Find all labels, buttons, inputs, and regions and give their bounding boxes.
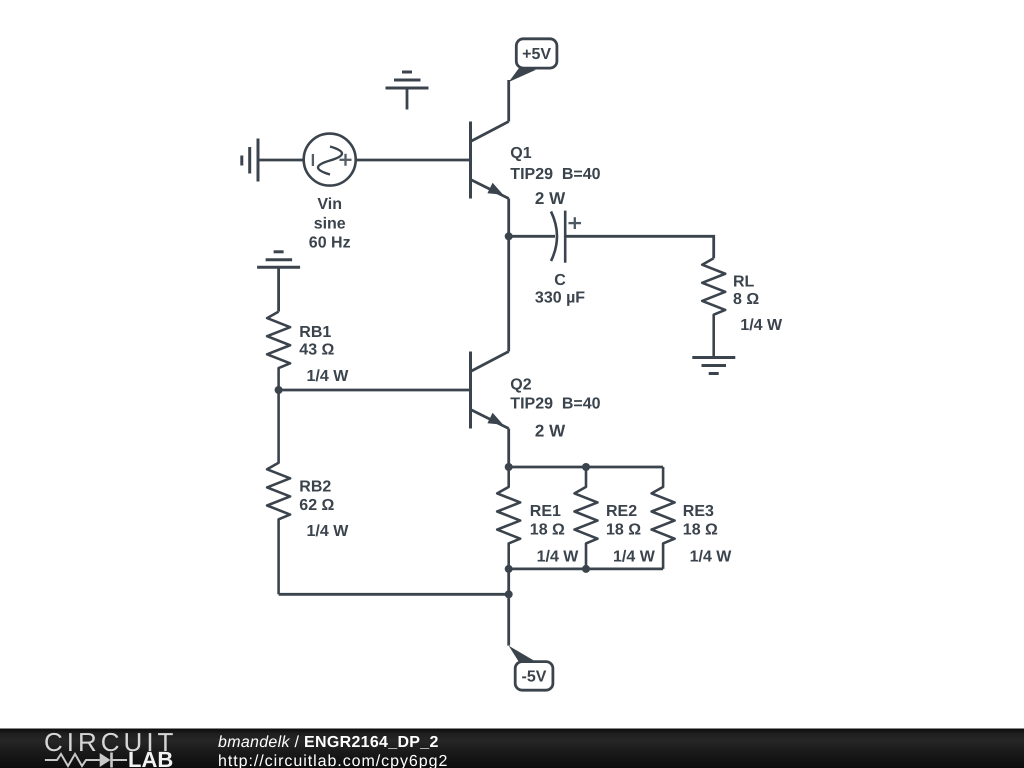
wire input ground to Vin <box>258 159 304 162</box>
wire output node to capacitor <box>509 235 555 238</box>
svg-text:Vin: Vin <box>317 196 342 213</box>
resistor RL <box>702 258 725 357</box>
wire Q2 emitter to RE rail <box>507 429 510 468</box>
svg-text:1/4 W: 1/4 W <box>740 317 783 334</box>
svg-text:RB2: RB2 <box>299 479 331 496</box>
node dot RE1 top <box>505 463 513 471</box>
wire +5V flag to Q1 collector <box>507 80 510 122</box>
svg-text:1/4 W: 1/4 W <box>307 523 350 540</box>
label RL 8 Ω 1/4 W <box>733 274 783 335</box>
wire RE bottom rail <box>509 568 663 571</box>
CircuitLab logo squiggle (resistor + diode) <box>45 753 127 768</box>
wire Vin to Q1 base <box>356 159 469 162</box>
node dot RE1 bottom <box>505 565 513 573</box>
node junction dot (output node) <box>505 232 513 240</box>
svg-text:RB1: RB1 <box>299 324 331 341</box>
svg-text:8 Ω: 8 Ω <box>733 291 759 308</box>
svg-text:RE3: RE3 <box>683 503 714 520</box>
label Q1 TIP29 B=40 2 W <box>510 145 600 208</box>
wire output node to Q2 collector <box>507 236 510 351</box>
svg-text:RL: RL <box>733 274 755 291</box>
wire RB2 to bottom node <box>279 593 509 596</box>
ground (above RB1) <box>257 252 300 267</box>
svg-text:Q2: Q2 <box>510 377 531 394</box>
node dot (Q2 base junction) <box>275 386 283 394</box>
transistor Q1 <box>471 122 509 199</box>
ground (floating, top middle) <box>386 72 429 110</box>
svg-text:60 Hz: 60 Hz <box>309 235 351 252</box>
svg-text:2 W: 2 W <box>535 422 566 441</box>
svg-text:1/4 W: 1/4 W <box>307 368 350 385</box>
capacitor C (polarized) <box>551 211 581 263</box>
power flag +5V <box>509 39 557 82</box>
svg-text:TIP29 B=40: TIP29 B=40 <box>510 166 600 183</box>
node dot RE2 bottom <box>582 565 590 573</box>
footer bar <box>0 729 1024 768</box>
transistor Q2 <box>471 352 509 429</box>
svg-text:62 Ω: 62 Ω <box>299 497 334 514</box>
svg-text:Q1: Q1 <box>510 145 531 162</box>
svg-text:-5V: -5V <box>522 669 547 686</box>
label Vin sine 60 Hz <box>309 196 351 252</box>
node dot RE2 top <box>582 463 590 471</box>
label C 330 µF <box>535 272 585 307</box>
label RE3 18 Ω 1/4 W <box>683 503 732 566</box>
resistor RE2 <box>575 467 598 569</box>
svg-text:TIP29 B=40: TIP29 B=40 <box>510 396 600 413</box>
svg-text:sine: sine <box>314 216 346 233</box>
voltage source Vin <box>304 134 356 186</box>
svg-text:18 Ω: 18 Ω <box>606 522 641 539</box>
label RB1 43 Ω 1/4 W <box>299 324 349 385</box>
svg-text:RE2: RE2 <box>606 503 637 520</box>
svg-text:1/4 W: 1/4 W <box>690 549 733 566</box>
resistor RE1 <box>497 467 520 569</box>
svg-text:18 Ω: 18 Ω <box>530 522 565 539</box>
svg-text:http://circuitlab.com/cpy6pg2: http://circuitlab.com/cpy6pg2 <box>218 753 448 768</box>
svg-text:18 Ω: 18 Ω <box>683 522 718 539</box>
svg-text:1/4 W: 1/4 W <box>537 549 580 566</box>
wire ground to RB1 <box>277 267 280 311</box>
svg-text:1/4 W: 1/4 W <box>613 549 656 566</box>
label RE1 18 Ω 1/4 W <box>530 503 579 566</box>
label RB2 62 Ω 1/4 W <box>299 479 349 541</box>
svg-text:330 µF: 330 µF <box>535 290 585 307</box>
wire RE rail to bottom node <box>507 569 510 594</box>
svg-text:C: C <box>554 272 566 289</box>
label Q2 TIP29 B=40 2 W <box>510 377 600 441</box>
node dot bottom junction <box>505 590 513 598</box>
svg-text:+5V: +5V <box>522 46 551 63</box>
wire RE top rail <box>509 466 663 469</box>
wire Q1 emitter to output node <box>507 199 510 237</box>
wire base junction to Q2 base <box>279 389 470 392</box>
label RE2 18 Ω 1/4 W <box>606 503 656 566</box>
resistor RB1 <box>267 312 290 390</box>
svg-text:2 W: 2 W <box>535 189 566 208</box>
wire bottom node to -5V flag <box>507 594 510 645</box>
ground (below RL) <box>692 358 735 374</box>
resistor RE3 <box>652 467 675 569</box>
svg-text:RE1: RE1 <box>530 503 561 520</box>
resistor RB2 <box>267 390 290 594</box>
power flag -5V <box>509 646 553 690</box>
svg-text:bmandelk / ENGR2164_DP_2: bmandelk / ENGR2164_DP_2 <box>218 734 439 751</box>
ground (input, left) <box>242 139 258 182</box>
wire capacitor to RL <box>565 236 714 258</box>
svg-text:LAB: LAB <box>128 747 173 768</box>
svg-text:43 Ω: 43 Ω <box>299 342 334 359</box>
